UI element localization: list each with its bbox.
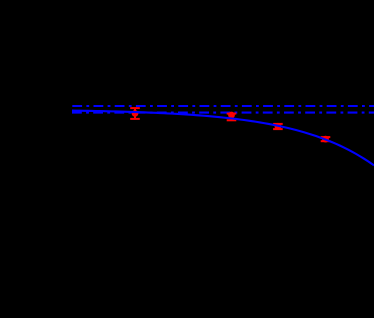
error bar 4 (x=326) xyxy=(321,137,331,141)
solid model curve xyxy=(72,111,374,166)
data marker 3 xyxy=(275,123,282,130)
data marker 2 xyxy=(228,112,235,119)
error bar 1 (x=135) xyxy=(130,108,140,119)
error bar 2 (x=232) xyxy=(227,114,237,121)
lower dash-dot reference line xyxy=(72,112,374,114)
data marker 1 xyxy=(132,110,139,117)
upper dash-dot reference line xyxy=(72,105,374,107)
data marker 4 xyxy=(322,136,329,143)
error bar 3 (x=278) xyxy=(273,124,283,129)
